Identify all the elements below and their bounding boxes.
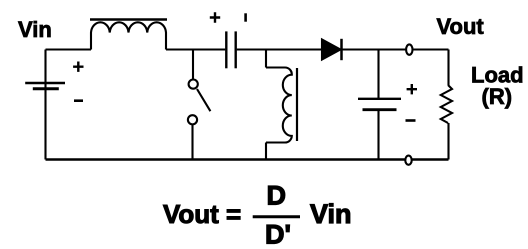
label (R) — [482, 84, 513, 109]
switch S1 — [188, 80, 211, 160]
minus tick of C1 — [244, 13, 247, 21]
svg-text:Vin: Vin — [18, 17, 52, 42]
battery V1 — [25, 50, 65, 160]
terminal top output — [406, 44, 412, 54]
wire top rail left (battery to L1) — [46, 48, 92, 50]
svg-text:(R): (R) — [482, 84, 513, 109]
capacitor C2 — [358, 99, 401, 160]
wire top rail (L1 to C1) — [166, 48, 225, 50]
capacitor C1 — [226, 31, 235, 68]
svg-text:D: D — [267, 181, 287, 211]
wire top rail (C1 to diode) — [237, 48, 322, 50]
resistor R load — [441, 50, 452, 160]
label Vin — [18, 17, 52, 42]
label Load — [471, 63, 524, 88]
svg-text:Vout: Vout — [437, 14, 485, 39]
wire bottom rail — [46, 158, 449, 160]
svg-text:Vout =: Vout = — [163, 199, 241, 229]
wire top rail (diode to right corner) — [342, 48, 449, 50]
wire L2 top drop — [265, 50, 267, 68]
svg-text:Vin: Vin — [310, 199, 352, 229]
label Vout — [437, 14, 485, 39]
wire C2 top drop — [377, 50, 379, 99]
minus label of battery — [74, 99, 83, 102]
inductor L2 — [266, 67, 297, 159]
formula Vout = D/D' Vin — [163, 181, 352, 249]
diode D1 — [322, 39, 342, 60]
fraction bar — [253, 215, 300, 218]
inductor L1 — [90, 20, 167, 50]
wire switch drop — [192, 50, 194, 80]
plus label of C1 — [210, 12, 220, 22]
plus label of battery — [73, 62, 83, 72]
plus label of C2 — [407, 84, 417, 94]
svg-text:D': D' — [265, 220, 291, 249]
terminal bottom output — [405, 156, 411, 165]
minus label of C2 — [406, 119, 416, 122]
